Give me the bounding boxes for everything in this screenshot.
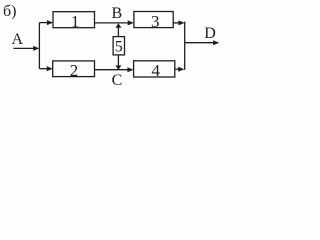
- svg-text:б): б): [3, 3, 16, 20]
- svg-text:D: D: [204, 25, 216, 42]
- svg-text:2: 2: [70, 61, 79, 80]
- svg-text:A: A: [12, 31, 24, 48]
- svg-text:4: 4: [152, 61, 161, 80]
- svg-text:3: 3: [151, 12, 160, 31]
- svg-text:5: 5: [115, 38, 123, 55]
- svg-text:C: C: [112, 72, 123, 89]
- svg-text:1: 1: [71, 12, 80, 31]
- svg-text:B: B: [111, 5, 122, 22]
